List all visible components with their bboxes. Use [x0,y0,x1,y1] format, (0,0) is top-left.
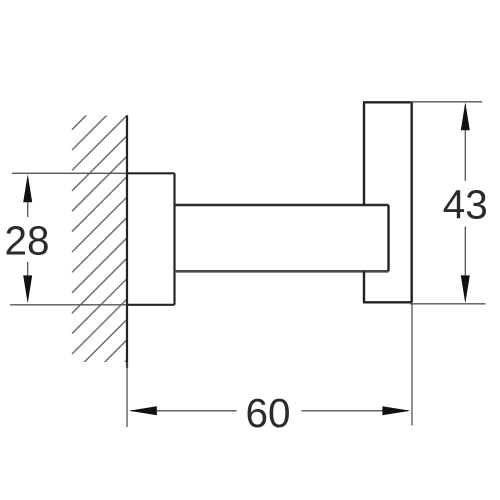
arrow 28 up [23,174,32,202]
arrow 28 down [23,275,32,303]
wall flange (mounting block) [126,173,175,304]
dimension 60: horizontal line with gap [131,410,408,412]
extension line, 28 bottom [10,304,128,306]
arrow 43 up [461,102,470,130]
svg-text:28: 28 [4,218,49,264]
extension line, 43 bottom [410,303,486,305]
extension line, 60 left (below wall) [126,362,128,427]
hook arm [175,205,389,271]
wall face line [126,115,128,368]
wall hatching [72,75,127,416]
extension line, 43 top [410,101,482,103]
svg-text:60: 60 [245,390,290,436]
arrow 43 down [461,275,470,303]
extension line, 28 top [12,172,128,174]
extension line, 60 right (below plate) [411,303,413,426]
dimension 43: vertical line with gap [464,105,466,300]
arrow 60 right [382,406,410,415]
end plate [363,102,412,302]
dimension 28: vertical line with gap [27,178,29,300]
svg-text:43: 43 [443,181,488,227]
arrow 60 left [129,406,157,415]
